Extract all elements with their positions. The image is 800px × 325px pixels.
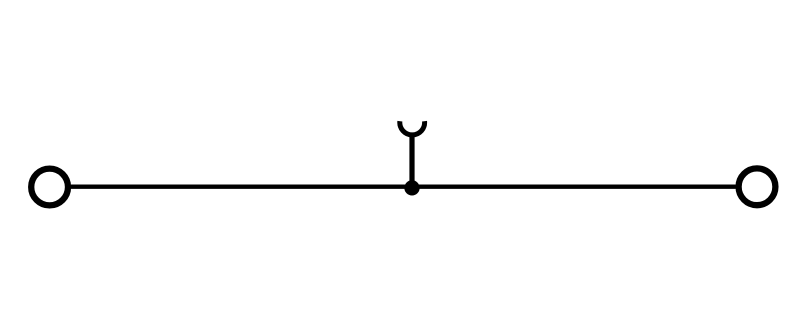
junction dot <box>404 180 419 195</box>
wire <box>71 184 736 188</box>
wire stub <box>409 133 414 187</box>
tap arc <box>400 121 425 135</box>
terminal circle left <box>31 169 68 206</box>
terminal circle right <box>739 168 776 205</box>
